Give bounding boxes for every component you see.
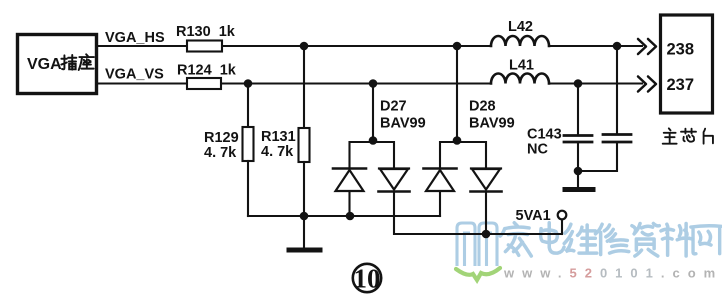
svg-text:C143: C143 bbox=[527, 127, 562, 143]
label main chip hanzi zhu-xin-pian bbox=[663, 128, 713, 143]
diode D27b (to 5V) bbox=[379, 169, 410, 192]
IC main-chip box bbox=[661, 15, 713, 113]
wire D27a anode to ground rail bbox=[348, 191, 350, 216]
resistor R129 bbox=[243, 127, 254, 161]
wire D28b cathode to 5V rail bbox=[485, 192, 487, 234]
inductor L41 bbox=[491, 74, 549, 84]
svg-text:R129: R129 bbox=[204, 130, 239, 146]
diode D27a (to ground) bbox=[333, 169, 366, 192]
resistor R130 bbox=[187, 41, 222, 52]
watermark logo green swoosh bbox=[456, 268, 500, 280]
wire HS: R130 to L42 bbox=[222, 45, 491, 47]
watermark hanzi wei (maintain) bbox=[564, 224, 597, 253]
frame circled figure number 10 bbox=[353, 264, 381, 292]
resistor R131 bbox=[299, 128, 310, 162]
diode D28a (to ground) bbox=[424, 169, 457, 192]
wire R131 vertical from HS node bbox=[303, 46, 305, 128]
svg-text:BAV99: BAV99 bbox=[380, 116, 426, 132]
arrow to pin 238 bbox=[638, 39, 656, 54]
svg-text:R124 1k: R124 1k bbox=[177, 63, 237, 79]
connector J1 VGA socket box bbox=[18, 35, 97, 94]
wire 5VA1 terminal riser bbox=[561, 220, 563, 235]
hanzi 座 bbox=[79, 54, 94, 70]
hanzi 片 bbox=[704, 129, 713, 144]
ground bbox=[289, 248, 320, 253]
wire R129 bottom bbox=[247, 161, 249, 216]
watermark hanzi zi (resource) bbox=[632, 223, 659, 256]
wire ground rail bbox=[248, 215, 440, 217]
svg-text:R131: R131 bbox=[261, 129, 296, 145]
wire VS: box to R124 bbox=[97, 82, 187, 84]
svg-text:VGA: VGA bbox=[27, 56, 62, 73]
node ground rail D27a junction bbox=[346, 212, 355, 221]
node ground rail R131 junction bbox=[300, 212, 309, 221]
node VS-D27 junction bbox=[369, 79, 378, 88]
node HS-D28 junction bbox=[453, 42, 462, 51]
svg-text:238: 238 bbox=[667, 41, 695, 59]
svg-text:5VA1: 5VA1 bbox=[516, 208, 551, 224]
watermark hanzi xiu (repair) bbox=[595, 224, 628, 254]
svg-text:www.520101.com: www.520101.com bbox=[503, 266, 722, 281]
node D27 bracket junction bbox=[369, 136, 378, 145]
svg-text:4. 7k: 4. 7k bbox=[261, 144, 294, 160]
hanzi 芯 bbox=[681, 129, 696, 142]
node VS-C143 junction bbox=[574, 79, 583, 88]
wire C2 bottom to junction bbox=[578, 142, 617, 171]
terminal 5VA1 bbox=[558, 211, 567, 220]
node C143 ground junction bbox=[574, 167, 583, 176]
diode D28b (to 5V) bbox=[471, 169, 502, 192]
svg-text:10: 10 bbox=[354, 264, 381, 294]
wire C143 bottom bbox=[577, 142, 579, 171]
wire ground stem right bbox=[577, 171, 579, 187]
resistor R124 bbox=[187, 78, 221, 89]
svg-text:D27: D27 bbox=[380, 99, 407, 115]
svg-text:R130 1k: R130 1k bbox=[176, 24, 236, 40]
node VS-R129 junction bbox=[244, 79, 253, 88]
wire VS: R124 to L41 bbox=[221, 82, 491, 84]
wire HS: box to R130 bbox=[97, 45, 187, 47]
wire R131 bottom bbox=[303, 162, 305, 216]
svg-text:BAV99: BAV99 bbox=[469, 116, 515, 132]
wire D27 top bracket bbox=[350, 142, 395, 168]
watermark hanzi wang (net) bbox=[691, 226, 721, 254]
svg-text:VGA_VS: VGA_VS bbox=[105, 67, 164, 83]
hanzi 主 bbox=[663, 128, 677, 143]
wire R129 vertical from VS node bbox=[247, 84, 249, 128]
watermark hanzi jia (home) bbox=[500, 223, 531, 256]
label VGA socket text: VGA + hanzi cha-zuo bbox=[27, 54, 94, 73]
svg-text:VGA_HS: VGA_HS bbox=[105, 30, 165, 46]
wire C143 drop from VS output node bbox=[577, 84, 579, 136]
capacitor C2 bbox=[603, 135, 631, 143]
svg-text:4. 7k: 4. 7k bbox=[204, 145, 237, 161]
watermark hanzi liao (material) bbox=[661, 223, 693, 256]
wire HS: L42 to arrow bbox=[549, 45, 642, 47]
wire VS: L41 to arrow bbox=[549, 82, 642, 84]
wire D28a anode drop bbox=[439, 191, 441, 216]
node HS-C2 junction bbox=[613, 42, 622, 51]
ground bbox=[565, 187, 593, 192]
node 5V rail D28b junction bbox=[482, 230, 491, 239]
node D28 bracket junction bbox=[453, 136, 462, 145]
svg-text:237: 237 bbox=[667, 76, 695, 94]
arrow to pin 237 bbox=[638, 77, 656, 92]
capacitor C143 bbox=[564, 136, 592, 143]
wire D28 stem from HS node bbox=[456, 46, 458, 142]
node HS-R131 junction bbox=[300, 42, 309, 51]
watermark hanzi dian (electric) bbox=[541, 223, 564, 253]
inductor L42 bbox=[491, 36, 549, 46]
wire D28 top bracket bbox=[440, 142, 486, 168]
wire D27b cathode to 5V rail bbox=[394, 192, 562, 234]
wire C2 drop from HS output node bbox=[616, 46, 618, 134]
svg-text:NC: NC bbox=[527, 142, 548, 158]
watermark logo book pages bbox=[457, 223, 497, 266]
svg-text:L42: L42 bbox=[508, 19, 533, 35]
wire ground stem bbox=[303, 216, 305, 248]
svg-text:D28: D28 bbox=[469, 99, 496, 115]
hanzi 插 bbox=[61, 55, 76, 70]
wire D27 stem from VS node bbox=[372, 84, 374, 143]
svg-text:L41: L41 bbox=[509, 58, 534, 74]
